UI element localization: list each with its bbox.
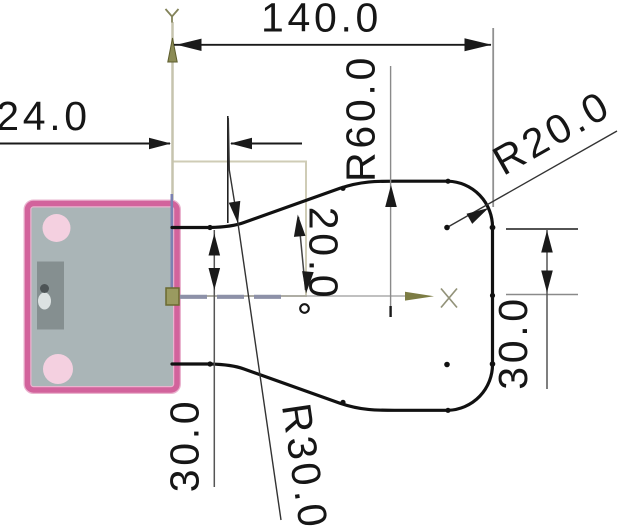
- part pocket: [37, 262, 64, 330]
- dim 30.0 right ext bottom: [506, 294, 578, 296]
- sketch points: [207, 179, 495, 413]
- X axis: [178, 295, 408, 297]
- dim 140.0 line: [174, 44, 491, 46]
- dim 30.0 left line: [213, 230, 215, 487]
- svg-text:30.0: 30.0: [162, 398, 208, 493]
- sketch left edge (blue line): [171, 194, 174, 300]
- Y axis label: [166, 9, 179, 23]
- dim 140.0 extension line: [492, 28, 494, 207]
- centerline dashes: [180, 295, 281, 299]
- profile bottom outline: [172, 364, 493, 410]
- dim 24.0 line left: [0, 143, 170, 145]
- X axis label: [441, 289, 457, 308]
- part body (3D model behind sketch): [28, 204, 178, 391]
- construction rectangle (tan reference box): [173, 162, 307, 297]
- pocket slot: [38, 293, 51, 310]
- dim R30.0 leader: [228, 118, 281, 520]
- profile right edge: [491, 228, 494, 365]
- dim 20.0deg shaft: [299, 217, 306, 290]
- part hole top: [43, 214, 71, 242]
- pocket pin: [40, 284, 49, 293]
- dim R20.0 leader: [447, 131, 617, 228]
- svg-text:30.0: 30.0: [490, 295, 536, 390]
- svg-text:R60.0: R60.0: [338, 54, 384, 182]
- origin marker: [166, 288, 179, 305]
- dim 30.0 right ext top: [506, 228, 578, 230]
- Y axis arrowhead: [168, 38, 177, 62]
- dim 24.0 extension line: [227, 116, 229, 223]
- svg-text:140.0: 140.0: [261, 0, 382, 41]
- X axis arrowhead: [405, 292, 434, 301]
- dim 30.0 right line: [546, 229, 548, 389]
- svg-text:24.0: 24.0: [0, 93, 91, 139]
- dim 24.0 line right: [231, 143, 302, 145]
- profile top outline: [172, 181, 493, 227]
- Y axis: [171, 22, 174, 295]
- svg-text:R30.0: R30.0: [273, 400, 337, 527]
- svg-text:20.0: 20.0: [301, 207, 347, 302]
- part hole bottom: [43, 354, 73, 384]
- dim R60.0 line: [390, 66, 392, 306]
